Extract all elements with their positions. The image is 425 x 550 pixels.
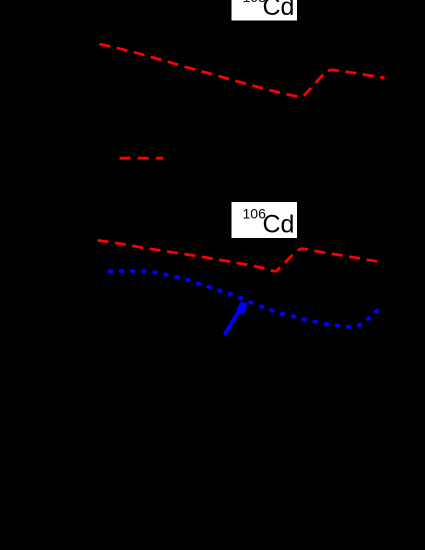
blue arrow (head) — [236, 302, 247, 315]
bottom panel blue dotted curve — [110, 271, 378, 327]
bottom panel red dashed Routhian curve — [98, 240, 385, 271]
blue arrow (shaft) — [224, 311, 239, 335]
label box 108Cd (clipped at top edge) — [232, 0, 298, 21]
legend dashed sample line — [120, 157, 164, 160]
svg-text:Cd: Cd — [263, 211, 295, 239]
label box 106Cd — [232, 202, 298, 239]
svg-text:Cd: Cd — [263, 0, 295, 21]
top panel red dashed Routhian curve — [100, 44, 385, 97]
